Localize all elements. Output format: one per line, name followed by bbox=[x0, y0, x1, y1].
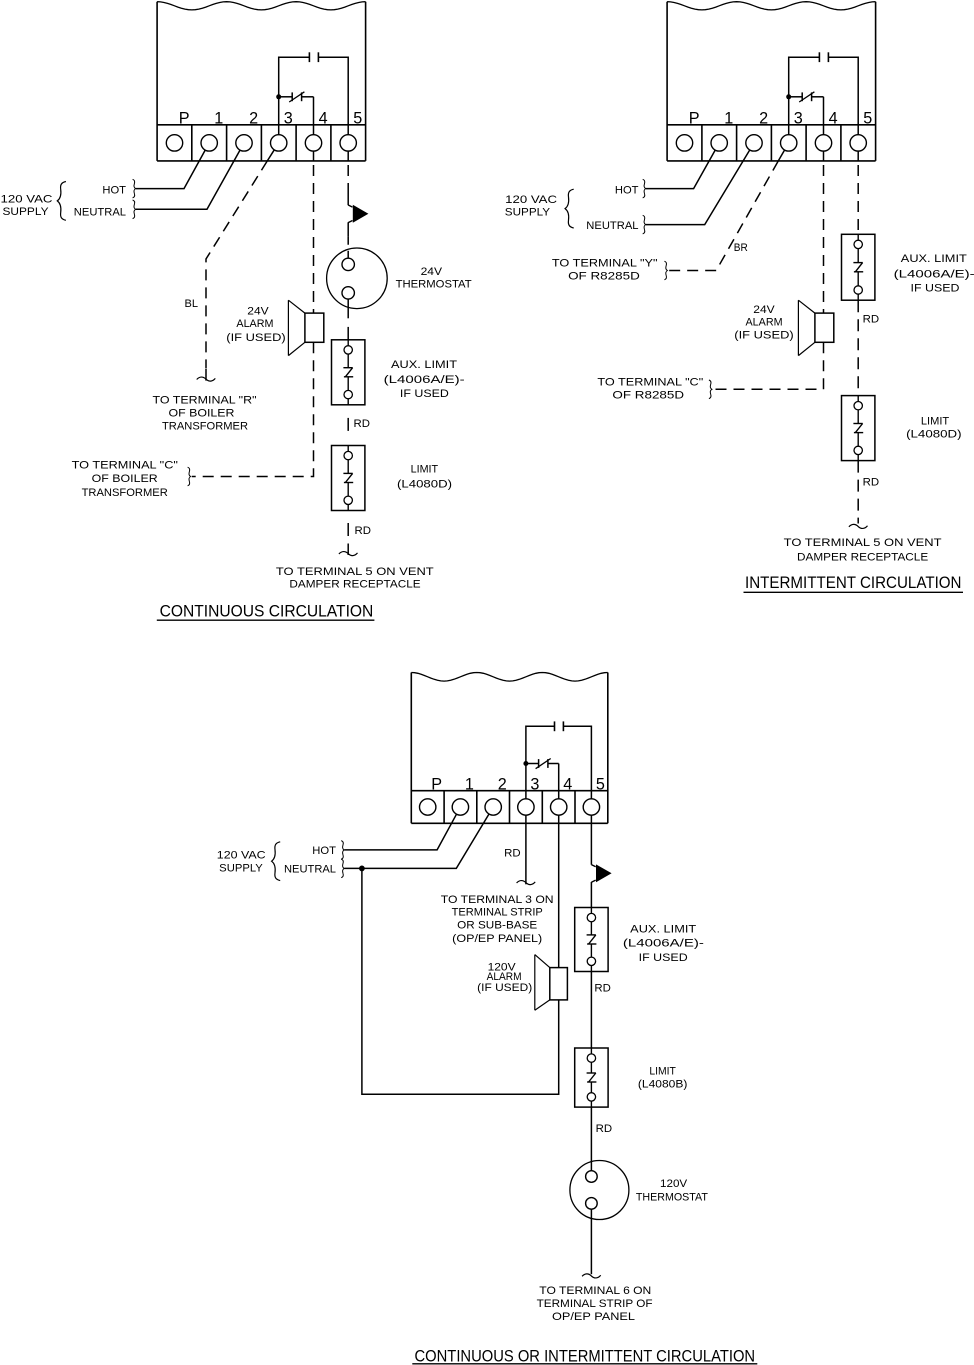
wire: junction to damper end switch to terminal 4 (left) bbox=[279, 97, 314, 135]
terminal labels P 1 2 3 4 5 (left) bbox=[179, 110, 363, 128]
wire: neutral loop down right and up to 120V alarm (bottom) bbox=[362, 868, 559, 1094]
svg-text:TERMINAL STRIP OF: TERMINAL STRIP OF bbox=[537, 1298, 653, 1310]
wire: terminal 5 down to aux limit (right) bbox=[857, 151, 859, 234]
aux limit L4006A/E (left) bbox=[332, 340, 365, 405]
label BR bbox=[734, 242, 748, 254]
wire: junction to end switch to terminal 4 (bottom) bbox=[526, 764, 559, 799]
label HOT (right) bbox=[615, 185, 639, 197]
break symbol at left vent damper lead bbox=[339, 552, 358, 556]
aux limit L4006A/E (bottom) bbox=[575, 908, 608, 972]
brace at NEUTRAL lead (right) bbox=[643, 215, 646, 234]
label TO TERMINAL R OF BOILER TRANSFORMER bbox=[153, 394, 257, 432]
svg-text:LIMIT: LIMIT bbox=[411, 464, 439, 476]
wire: terminal 4 down to 24V alarm (left) bbox=[313, 151, 315, 320]
svg-text:(OP/EP PANEL): (OP/EP PANEL) bbox=[452, 933, 542, 945]
wire: limit down to vent damper lead (right) bbox=[857, 461, 859, 524]
svg-text:IF USED: IF USED bbox=[639, 952, 688, 964]
svg-text:HOT: HOT bbox=[312, 845, 336, 857]
svg-text:ALARM: ALARM bbox=[746, 317, 783, 329]
wire: thermostat to aux limit (left) bbox=[347, 299, 349, 340]
svg-text:120 VAC: 120 VAC bbox=[505, 194, 557, 206]
speaker 24V alarm (right) bbox=[798, 300, 833, 355]
label TO TERMINAL 6 ON TERMINAL STRIP OF OP/EP PANEL bbox=[537, 1285, 653, 1323]
label 120V ALARM IF USED (bottom) bbox=[477, 962, 532, 995]
node: junction on terminal-3 wire (left) bbox=[276, 94, 281, 99]
label TO TERMINAL 5 ON VENT DAMPER RECEPTACLE (right) bbox=[784, 537, 942, 564]
svg-text:P: P bbox=[689, 110, 700, 128]
label AUX. LIMIT (L4006A/E)- IF USED (right) bbox=[894, 253, 974, 294]
svg-text:120 VAC: 120 VAC bbox=[1, 194, 53, 206]
terminal strip screw terminals (left) bbox=[166, 135, 356, 151]
break symbol at thermostat lead (bottom) bbox=[582, 1274, 601, 1278]
svg-text:TO TERMINAL "R": TO TERMINAL "R" bbox=[153, 394, 257, 406]
label 120 VAC SUPPLY (bottom) bbox=[217, 849, 266, 874]
wire: terminal 5 down to plug (left) bbox=[347, 151, 349, 237]
label RD (right upper) bbox=[863, 314, 880, 326]
brace at TO TERMINAL Y lead bbox=[664, 261, 667, 280]
plug arrow connector (left) bbox=[348, 205, 368, 223]
break symbol at terminal 3 lead (bottom) bbox=[517, 881, 536, 885]
svg-text:BL: BL bbox=[185, 298, 199, 310]
speaker 120V alarm (bottom) bbox=[535, 955, 568, 1011]
svg-text:3: 3 bbox=[530, 775, 539, 793]
svg-text:120 VAC: 120 VAC bbox=[217, 849, 266, 861]
wire: limit down to vent damper lead (left) bbox=[347, 523, 349, 555]
svg-text:RD: RD bbox=[863, 476, 880, 488]
terminal labels P 1 2 3 4 5 (bottom) bbox=[431, 775, 605, 793]
wire: aux limit to limit (right) bbox=[857, 300, 859, 395]
svg-text:NEUTRAL: NEUTRAL bbox=[74, 207, 126, 219]
label RD (left lower) bbox=[355, 525, 372, 537]
wire: terminal 4 down to 24V alarm (right) bbox=[823, 151, 825, 320]
svg-text:(L4080D): (L4080D) bbox=[397, 479, 452, 491]
svg-text:OF R8285D: OF R8285D bbox=[568, 271, 640, 283]
svg-text:AUX. LIMIT: AUX. LIMIT bbox=[391, 359, 457, 371]
svg-text:IF USED: IF USED bbox=[400, 388, 449, 400]
svg-text:OP/EP PANEL: OP/EP PANEL bbox=[552, 1311, 635, 1323]
label TO TERMINAL C OF BOILER TRANSFORMER bbox=[72, 460, 178, 499]
node: junction on NEUTRAL wire (bottom) bbox=[359, 866, 365, 872]
label 24V ALARM IF USED (right) bbox=[734, 304, 793, 342]
svg-text:3: 3 bbox=[284, 110, 293, 128]
damper end switch contacts (left) bbox=[289, 92, 304, 102]
svg-text:DAMPER RECEPTACLE: DAMPER RECEPTACLE bbox=[797, 551, 928, 563]
wire: aux limit to limit (left) bbox=[347, 418, 349, 431]
brace at NEUTRAL lead (bottom) bbox=[341, 859, 344, 878]
svg-text:(L4080B): (L4080B) bbox=[638, 1079, 688, 1091]
svg-text:SUPPLY: SUPPLY bbox=[505, 207, 551, 219]
svg-text:OF BOILER: OF BOILER bbox=[169, 407, 235, 419]
plug contact gap symbol (left interior top) bbox=[309, 52, 318, 62]
svg-text:4: 4 bbox=[829, 110, 838, 128]
svg-text:RD: RD bbox=[504, 848, 521, 860]
svg-text:RD: RD bbox=[354, 418, 371, 430]
svg-text:NEUTRAL: NEUTRAL bbox=[284, 864, 336, 876]
damper end switch contacts (right) bbox=[799, 92, 814, 102]
wire: limit down to 120V thermostat (bottom) bbox=[590, 1107, 592, 1171]
wire: HOT to terminal 1 (bottom) bbox=[344, 814, 456, 850]
limit L4080D (left) bbox=[332, 446, 365, 511]
plug contact gap symbol (bottom interior top) bbox=[555, 721, 564, 731]
svg-text:AUX. LIMIT: AUX. LIMIT bbox=[901, 253, 967, 265]
svg-text:2: 2 bbox=[249, 110, 258, 128]
break symbol at right vent damper lead bbox=[849, 524, 868, 528]
label NEUTRAL (right) bbox=[586, 220, 638, 232]
title CONTINUOUS OR INTERMITTENT CIRCULATION bbox=[412, 1347, 757, 1365]
wire: plug to 24V thermostat (left) bbox=[347, 237, 349, 258]
wire: terminal 5 down to plug (bottom) bbox=[590, 815, 592, 907]
svg-text:(L4006A/E)-: (L4006A/E)- bbox=[623, 938, 704, 950]
svg-text:5: 5 bbox=[596, 775, 605, 793]
svg-text:OR SUB-BASE: OR SUB-BASE bbox=[457, 920, 537, 932]
label RD (right lower) bbox=[863, 476, 880, 488]
terminal strip screw terminals (right) bbox=[676, 135, 866, 151]
svg-text:SUPPLY: SUPPLY bbox=[3, 206, 50, 218]
aux limit L4006A/E (right) bbox=[842, 234, 875, 300]
wire: HOT to terminal 1 (right) bbox=[646, 150, 715, 189]
label LIMIT (L4080D) (right) bbox=[906, 416, 962, 441]
120V thermostat (bottom) bbox=[570, 1161, 629, 1220]
svg-text:SUPPLY: SUPPLY bbox=[219, 863, 263, 875]
wire: 24V alarm down and left to terminal C (right) bbox=[713, 342, 824, 389]
label AUX. LIMIT (L4006A/E)- IF USED (left) bbox=[384, 359, 465, 400]
label 120 VAC SUPPLY (right) bbox=[505, 194, 557, 218]
svg-text:(IF USED): (IF USED) bbox=[226, 332, 285, 344]
svg-text:(IF USED): (IF USED) bbox=[477, 982, 532, 994]
svg-text:NEUTRAL: NEUTRAL bbox=[586, 220, 638, 232]
svg-text:TERMINAL STRIP: TERMINAL STRIP bbox=[452, 906, 543, 918]
speaker 24V alarm (left) bbox=[288, 300, 323, 355]
title INTERMITTENT CIRCULATION bbox=[744, 573, 964, 592]
svg-text:RD: RD bbox=[596, 1123, 613, 1135]
damper end switch contacts (bottom) bbox=[536, 759, 551, 769]
wire: terminal 3 up and over to terminal 5 (right receptacle interior) bbox=[789, 57, 859, 135]
svg-text:120V: 120V bbox=[660, 1178, 688, 1190]
svg-text:24V: 24V bbox=[421, 266, 443, 278]
24V thermostat (left) bbox=[327, 248, 388, 309]
vent damper receptacle outline (left diagram) bbox=[157, 2, 366, 161]
plug arrow connector (bottom) bbox=[591, 864, 611, 882]
wire: NEUTRAL to terminal 2 (left) bbox=[136, 150, 240, 209]
svg-text:3: 3 bbox=[794, 110, 803, 128]
svg-text:1: 1 bbox=[465, 775, 474, 793]
svg-text:RD: RD bbox=[594, 983, 611, 995]
svg-text:TO TERMINAL 6 ON: TO TERMINAL 6 ON bbox=[539, 1285, 651, 1297]
svg-text:OF R8285D: OF R8285D bbox=[612, 390, 684, 402]
wire: terminal 3 brown lead to R8285D Y (right) bbox=[668, 150, 784, 271]
wire: terminal 3 up and over to terminal 5 (bottom panel interior) bbox=[526, 726, 592, 799]
brace at HOT lead (bottom) bbox=[341, 841, 344, 860]
svg-text:RD: RD bbox=[355, 525, 372, 537]
svg-text:INTERMITTENT CIRCULATION: INTERMITTENT CIRCULATION bbox=[745, 573, 962, 592]
brace for 120 VAC SUPPLY (bottom) bbox=[272, 842, 281, 881]
label AUX. LIMIT (L4006A/E)- IF USED (bottom) bbox=[623, 924, 704, 964]
svg-text:(L4006A/E)-: (L4006A/E)- bbox=[384, 374, 465, 386]
svg-text:4: 4 bbox=[319, 110, 328, 128]
svg-text:TO TERMINAL "Y": TO TERMINAL "Y" bbox=[552, 258, 658, 270]
plug contact gap symbol (right interior top) bbox=[819, 52, 828, 62]
svg-text:THERMOSTAT: THERMOSTAT bbox=[396, 279, 472, 291]
wire: junction to damper end switch to terminal 4 (right) bbox=[789, 97, 824, 135]
svg-text:2: 2 bbox=[498, 775, 507, 793]
svg-text:TRANSFORMER: TRANSFORMER bbox=[162, 420, 248, 432]
wire: terminal 3 blue lead down-left (left) bbox=[206, 150, 274, 381]
label BL bbox=[185, 298, 199, 310]
label 24V ALARM IF USED (left) bbox=[226, 306, 285, 345]
svg-text:2: 2 bbox=[759, 110, 768, 128]
svg-text:TO TERMINAL 5 ON VENT: TO TERMINAL 5 ON VENT bbox=[276, 566, 434, 578]
label HOT (bottom) bbox=[312, 845, 336, 857]
svg-text:TRANSFORMER: TRANSFORMER bbox=[82, 487, 168, 499]
OP/EP panel outline (bottom diagram) bbox=[411, 673, 608, 824]
svg-text:OF BOILER: OF BOILER bbox=[92, 473, 158, 485]
brace at HOT lead (right) bbox=[643, 179, 646, 198]
label LIMIT (L4080D) (left) bbox=[397, 464, 452, 491]
wire: thermostat down to OP/EP lead (bottom) bbox=[590, 1209, 592, 1274]
label 120V THERMOSTAT bbox=[636, 1178, 708, 1203]
brace at TO TERMINAL C lead (left) bbox=[188, 467, 191, 486]
label RD (bottom lower) bbox=[596, 1123, 613, 1135]
svg-text:BR: BR bbox=[734, 242, 748, 254]
brace at HOT lead (left) bbox=[133, 179, 136, 198]
break symbol at BL wire end bbox=[197, 377, 216, 381]
wire: NEUTRAL to terminal 2 (bottom) bbox=[344, 814, 489, 868]
label NEUTRAL (bottom) bbox=[284, 864, 336, 876]
svg-text:LIMIT: LIMIT bbox=[921, 416, 950, 428]
brace at TO TERMINAL C lead (right) bbox=[709, 380, 712, 399]
svg-text:HOT: HOT bbox=[102, 185, 126, 197]
label TO TERMINAL 5 ON VENT DAMPER RECEPTACLE (left) bbox=[276, 566, 434, 591]
label HOT (left) bbox=[102, 185, 126, 197]
wire: HOT to terminal 1 (left) bbox=[136, 150, 205, 189]
svg-text:(L4006A/E)-: (L4006A/E)- bbox=[894, 269, 974, 281]
svg-text:4: 4 bbox=[563, 775, 572, 793]
label NEUTRAL (left) bbox=[74, 207, 126, 219]
svg-text:RD: RD bbox=[863, 314, 880, 326]
wire: terminal 4 down to 120V alarm (bottom) bbox=[558, 815, 560, 967]
svg-text:CONTINUOUS OR INTERMITTENT CIR: CONTINUOUS OR INTERMITTENT CIRCULATION bbox=[415, 1347, 756, 1365]
svg-text:5: 5 bbox=[353, 110, 362, 128]
wire: terminal 3 up and over to terminal 5 (left receptacle interior) bbox=[279, 57, 349, 135]
brace for 120 VAC SUPPLY (right) bbox=[565, 189, 574, 228]
label RD (left upper) bbox=[354, 418, 371, 430]
svg-text:1: 1 bbox=[214, 110, 223, 128]
label TO TERMINAL 3 ON TERMINAL STRIP OR SUB-BASE (OP/EP PANEL) bbox=[441, 894, 554, 945]
wire: NEUTRAL to terminal 2 (right) bbox=[646, 150, 750, 225]
brace at NEUTRAL lead (left) bbox=[133, 200, 136, 219]
svg-text:TO TERMINAL "C": TO TERMINAL "C" bbox=[72, 460, 178, 472]
svg-text:(IF USED): (IF USED) bbox=[734, 330, 793, 342]
svg-text:CONTINUOUS CIRCULATION: CONTINUOUS CIRCULATION bbox=[160, 602, 374, 621]
svg-text:LIMIT: LIMIT bbox=[649, 1066, 676, 1078]
node: junction on terminal-3 wire (right) bbox=[786, 94, 791, 99]
svg-text:TO TERMINAL 5 ON VENT: TO TERMINAL 5 ON VENT bbox=[784, 537, 942, 549]
label 120 VAC SUPPLY (left) bbox=[1, 194, 53, 218]
terminal strip screw terminals (bottom) bbox=[420, 799, 600, 815]
title CONTINUOUS CIRCULATION bbox=[157, 602, 375, 621]
svg-text:5: 5 bbox=[863, 110, 872, 128]
svg-text:AUX. LIMIT: AUX. LIMIT bbox=[630, 924, 696, 936]
label RD (bottom near terminal 3) bbox=[504, 848, 521, 860]
label RD (bottom upper) bbox=[594, 983, 611, 995]
svg-text:P: P bbox=[431, 775, 442, 793]
svg-text:24V: 24V bbox=[753, 304, 775, 316]
svg-text:THERMOSTAT: THERMOSTAT bbox=[636, 1191, 708, 1203]
wire: 24V alarm down and left to terminal C (left) bbox=[192, 342, 314, 476]
svg-text:P: P bbox=[179, 110, 190, 128]
label TO TERMINAL C OF R8285D bbox=[597, 376, 703, 401]
limit L4080B (bottom) bbox=[575, 1048, 608, 1107]
label 24V THERMOSTAT (left) bbox=[396, 266, 472, 291]
svg-text:TO TERMINAL 3 ON: TO TERMINAL 3 ON bbox=[441, 894, 554, 906]
limit L4080D (right) bbox=[842, 396, 875, 461]
svg-text:(L4080D): (L4080D) bbox=[906, 429, 962, 441]
label TO TERMINAL Y OF R8285D bbox=[552, 258, 658, 283]
svg-text:TO TERMINAL "C": TO TERMINAL "C" bbox=[597, 376, 703, 388]
svg-text:24V: 24V bbox=[247, 306, 269, 318]
svg-text:HOT: HOT bbox=[615, 185, 639, 197]
vent damper receptacle outline (right diagram) bbox=[667, 2, 876, 161]
svg-text:ALARM: ALARM bbox=[236, 318, 273, 330]
svg-text:1: 1 bbox=[724, 110, 733, 128]
wire: aux limit to limit (bottom) bbox=[590, 972, 592, 1049]
brace for 120 VAC SUPPLY (left) bbox=[57, 182, 66, 221]
node: junction on terminal-3 wire (bottom) bbox=[523, 761, 528, 766]
svg-text:IF USED: IF USED bbox=[911, 282, 960, 294]
terminal labels P 1 2 3 4 5 (right) bbox=[689, 110, 873, 128]
label LIMIT (L4080B) (bottom) bbox=[638, 1066, 688, 1091]
svg-text:DAMPER RECEPTACLE: DAMPER RECEPTACLE bbox=[289, 579, 420, 591]
wire: terminal 3 down to OP/EP lead (bottom) bbox=[525, 815, 527, 884]
